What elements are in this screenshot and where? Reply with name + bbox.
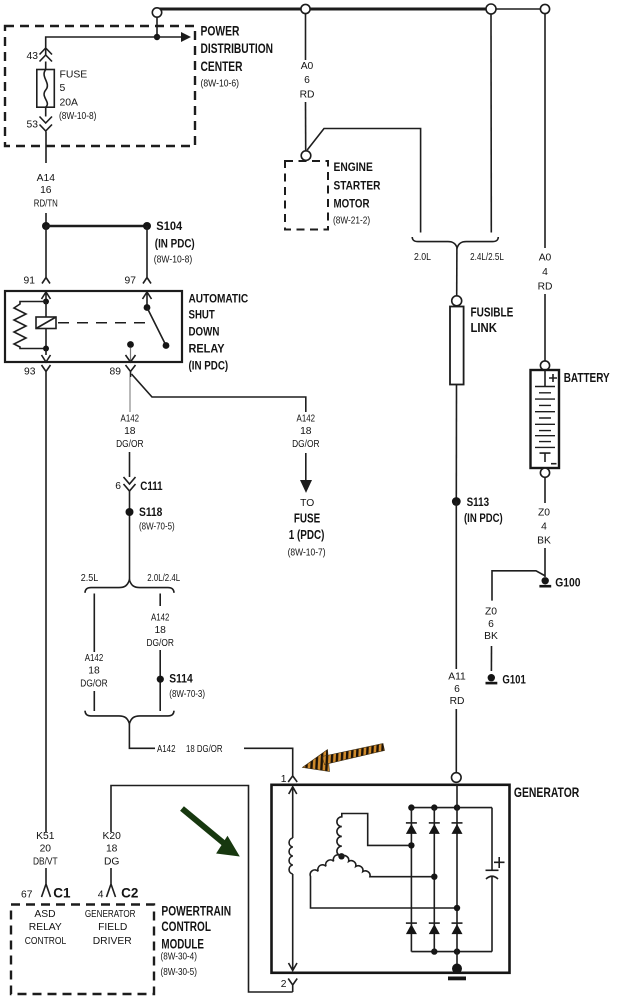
svg-text:97: 97 xyxy=(125,276,137,287)
svg-text:(8W-10-8): (8W-10-8) xyxy=(59,111,96,122)
svg-text:(IN PDC): (IN PDC) xyxy=(155,236,195,250)
svg-text:20: 20 xyxy=(40,844,52,855)
svg-text:ENGINE: ENGINE xyxy=(334,160,373,174)
stator phase C winding xyxy=(342,856,435,877)
svg-text:6: 6 xyxy=(115,481,121,492)
battery plus terminal xyxy=(549,374,557,382)
svg-text:STARTER: STARTER xyxy=(334,179,381,193)
svg-text:(8W-21-2): (8W-21-2) xyxy=(333,215,370,226)
svg-text:5: 5 xyxy=(60,83,66,94)
fuse F5 element xyxy=(44,62,47,108)
pin C1 connector xyxy=(42,872,51,898)
wire 2.5L branch upper xyxy=(93,594,95,653)
svg-text:18: 18 xyxy=(300,426,312,437)
wire fusible link right leg xyxy=(490,14,492,233)
relay switch output contact xyxy=(127,341,134,348)
wire 2.0L branch lower xyxy=(159,650,161,711)
svg-text:2.4L/2.5L: 2.4L/2.5L xyxy=(470,252,504,263)
rectifier top bus xyxy=(411,807,492,809)
svg-text:DG/OR: DG/OR xyxy=(147,638,174,649)
svg-text:LINK: LINK xyxy=(471,320,498,335)
wire from top-left circle down to junction xyxy=(156,17,158,37)
annotation green arrow xyxy=(182,809,240,857)
svg-text:A142: A142 xyxy=(151,613,170,624)
node phase C tap xyxy=(431,874,437,880)
svg-text:2: 2 xyxy=(281,979,287,990)
svg-text:K20: K20 xyxy=(103,831,122,842)
svg-text:18: 18 xyxy=(88,666,100,677)
svg-text:4: 4 xyxy=(542,267,548,278)
capacitor return wire xyxy=(491,877,493,952)
wire K20 lower xyxy=(110,868,112,872)
svg-text:S118: S118 xyxy=(139,505,162,519)
svg-text:1: 1 xyxy=(281,774,287,785)
svg-text:S113: S113 xyxy=(467,495,490,509)
svg-text:A142: A142 xyxy=(121,413,140,424)
wire A0 6 RD upper xyxy=(305,14,307,60)
relay actuation dashed link xyxy=(58,322,146,324)
wire branch to G101 xyxy=(492,571,545,601)
wire battery ground lower xyxy=(544,548,546,577)
node relay coil bottom junction xyxy=(43,346,49,352)
svg-text:DB/VT: DB/VT xyxy=(33,857,58,868)
generator box xyxy=(272,785,510,973)
pin 91 connector xyxy=(42,278,50,284)
fusible link body xyxy=(450,307,464,385)
wire K20 from pin 2 to PCM C2 xyxy=(111,786,293,993)
node connector circle battery feed xyxy=(540,4,549,13)
svg-text:BK: BK xyxy=(484,631,498,642)
svg-text:G100: G100 xyxy=(555,575,580,589)
svg-text:6: 6 xyxy=(488,619,494,630)
wire 2.5L branch lower xyxy=(93,691,95,711)
pin 91 male arrow inside relay xyxy=(42,292,51,302)
svg-text:(8W-70-5): (8W-70-5) xyxy=(139,521,175,532)
generator internal ground xyxy=(452,964,462,974)
svg-text:CENTER: CENTER xyxy=(201,58,243,74)
svg-text:RD: RD xyxy=(450,696,465,707)
node generator B+ circle xyxy=(452,773,462,783)
capacitor C plates xyxy=(486,869,499,871)
svg-text:GENERATOR: GENERATOR xyxy=(85,909,136,920)
diode D2 top xyxy=(429,822,440,824)
rectifier bottom bus xyxy=(411,951,492,953)
resistor inside relay xyxy=(14,302,46,349)
node relay coil top junction xyxy=(43,299,49,305)
svg-text:16: 16 xyxy=(40,185,52,196)
pin 97 connector xyxy=(143,278,151,284)
wire top bus thin segment xyxy=(491,8,545,10)
svg-text:6: 6 xyxy=(304,75,310,86)
diode D1 top xyxy=(406,822,417,824)
svg-text:G101: G101 xyxy=(502,673,525,687)
svg-text:2.0L/2.4L: 2.0L/2.4L xyxy=(147,573,180,584)
wire brace to fusible link xyxy=(456,248,458,296)
svg-text:FIELD: FIELD xyxy=(98,922,127,933)
splice S104 xyxy=(42,222,50,230)
svg-text:C111: C111 xyxy=(140,479,162,493)
svg-text:POWER: POWER xyxy=(201,23,240,39)
svg-text:FUSE: FUSE xyxy=(60,69,88,80)
svg-text:(8W-30-5): (8W-30-5) xyxy=(161,967,197,978)
pin 43 connector chevrons xyxy=(40,48,53,62)
wire battery feed lower xyxy=(544,294,546,361)
splice S118 xyxy=(126,508,134,516)
wire into generator pin 1 xyxy=(244,748,293,775)
svg-text:A142: A142 xyxy=(297,413,316,424)
pin 1 connector xyxy=(288,776,297,782)
svg-text:S104: S104 xyxy=(156,219,182,233)
svg-text:(8W-30-4): (8W-30-4) xyxy=(161,952,197,963)
svg-text:6: 6 xyxy=(454,684,460,695)
svg-text:1 (PDC): 1 (PDC) xyxy=(289,527,325,542)
battery plates xyxy=(535,387,555,448)
capacitor plus label xyxy=(494,857,505,868)
diode D2 bottom xyxy=(429,922,440,924)
svg-text:2.0L: 2.0L xyxy=(414,252,431,263)
generator field winding xyxy=(289,787,297,838)
svg-text:ASD: ASD xyxy=(34,909,55,920)
pin 53 connector chevrons xyxy=(40,117,53,132)
wire arrow feed into Power Distribution Center xyxy=(46,37,183,55)
wire S113 to generator lower xyxy=(455,709,457,773)
svg-text:(8W-10-6): (8W-10-6) xyxy=(201,79,240,90)
svg-text:A0: A0 xyxy=(301,61,314,72)
svg-text:MOTOR: MOTOR xyxy=(334,197,370,211)
node phase B tap xyxy=(454,905,460,911)
svg-text:DG/OR: DG/OR xyxy=(116,439,143,450)
annotation striped arrow xyxy=(303,744,385,772)
svg-text:C1: C1 xyxy=(53,885,71,900)
node connector circle top-left xyxy=(152,8,161,17)
svg-text:18: 18 xyxy=(124,426,136,437)
pin C2 connector xyxy=(107,872,116,898)
capacitor branch wire xyxy=(491,808,493,871)
node connector circle fusible-link feed xyxy=(486,4,496,14)
wire to G101 lower xyxy=(490,646,492,671)
svg-text:43: 43 xyxy=(27,51,39,62)
pin 93 connector pair xyxy=(42,349,51,378)
node battery negative circle xyxy=(540,468,549,477)
svg-text:RD: RD xyxy=(538,282,553,293)
svg-text:18: 18 xyxy=(154,625,166,636)
fuse F5 body xyxy=(37,70,55,108)
splice S113 xyxy=(452,497,461,506)
svg-text:CONTROL: CONTROL xyxy=(25,936,67,947)
wire top bus thick segment xyxy=(156,8,491,11)
svg-text:(IN PDC): (IN PDC) xyxy=(189,359,229,373)
diode D1 bottom xyxy=(406,922,417,924)
stator phase A winding xyxy=(337,814,412,857)
svg-text:(8W-10-7): (8W-10-7) xyxy=(288,548,326,559)
wire S104 to pin 97 xyxy=(146,226,148,277)
svg-text:A14: A14 xyxy=(37,173,56,184)
automatic shut down relay box xyxy=(5,291,182,362)
pin 2 connector xyxy=(288,979,297,993)
rectifier column 3 main line xyxy=(456,785,458,973)
wire A14 lower segment xyxy=(45,213,47,226)
wire battery ground upper xyxy=(544,477,546,503)
svg-text:TO: TO xyxy=(300,498,314,509)
node connector circle A0-6-RD xyxy=(301,4,310,13)
relay switch arm xyxy=(147,308,166,346)
svg-text:POWERTRAIN: POWERTRAIN xyxy=(161,904,231,919)
svg-text:18: 18 xyxy=(106,844,118,855)
svg-text:67: 67 xyxy=(21,889,33,900)
power distribution center dashed box xyxy=(5,26,195,146)
wire S104 to pin 91 xyxy=(45,226,47,277)
svg-text:RELAY: RELAY xyxy=(189,342,226,356)
engine split brace upper xyxy=(85,580,174,593)
svg-text:DISTRIBUTION: DISTRIBUTION xyxy=(201,40,274,56)
node junction dot above PDC arrow xyxy=(154,34,160,40)
engine starter motor dashed box xyxy=(285,161,328,230)
svg-text:89: 89 xyxy=(110,367,122,378)
stator phase B winding xyxy=(310,855,457,908)
svg-text:RD: RD xyxy=(300,89,315,100)
svg-text:Z0: Z0 xyxy=(538,508,550,519)
svg-text:4: 4 xyxy=(541,522,547,533)
wire fusible link to S113 xyxy=(455,385,457,502)
svg-text:MODULE: MODULE xyxy=(161,937,204,952)
wire branch to fusible link brace xyxy=(307,129,420,233)
engine split brace lower xyxy=(85,711,174,724)
relay coil element xyxy=(45,302,47,318)
wire C111 feed xyxy=(129,452,131,477)
svg-text:S114: S114 xyxy=(169,672,192,686)
svg-text:RELAY: RELAY xyxy=(29,922,62,933)
svg-text:CONTROL: CONTROL xyxy=(161,919,211,934)
rectifier column 2 xyxy=(433,808,435,952)
ground G101 xyxy=(488,674,495,681)
powertrain control module dashed box xyxy=(11,905,154,995)
svg-text:DG/OR: DG/OR xyxy=(292,439,319,450)
wire brace to generator run xyxy=(129,724,155,749)
svg-text:A0: A0 xyxy=(539,253,552,264)
svg-text:RD/TN: RD/TN xyxy=(34,198,58,209)
svg-text:18 DG/OR: 18 DG/OR xyxy=(186,744,223,755)
svg-text:53: 53 xyxy=(27,120,39,131)
svg-text:SHUT: SHUT xyxy=(189,308,216,322)
svg-text:91: 91 xyxy=(24,276,36,287)
diode D3 bottom xyxy=(452,922,463,924)
svg-text:DG/OR: DG/OR xyxy=(80,679,107,690)
svg-text:4: 4 xyxy=(98,889,104,900)
connector C111 chevrons xyxy=(124,477,136,491)
svg-text:DOWN: DOWN xyxy=(189,325,220,339)
svg-text:C2: C2 xyxy=(121,885,138,900)
battery minus terminal xyxy=(540,453,551,462)
svg-text:A142: A142 xyxy=(157,744,176,755)
pin 89 connector pair xyxy=(126,355,136,377)
svg-text:DG: DG xyxy=(104,857,119,868)
svg-text:(8W-10-8): (8W-10-8) xyxy=(154,254,192,265)
node battery positive circle xyxy=(540,361,549,370)
svg-text:2.5L: 2.5L xyxy=(81,573,99,584)
wire pin 89 branch to fuse 1 xyxy=(132,374,306,412)
svg-text:GENERATOR: GENERATOR xyxy=(514,784,579,800)
ground G100 xyxy=(542,577,549,584)
node fusible link circle xyxy=(452,296,462,306)
diode D3 top xyxy=(452,822,463,824)
wire S113 to generator upper xyxy=(455,502,457,670)
wire 2.0L/2.4L branch upper xyxy=(159,594,161,607)
fusible link brace xyxy=(412,237,498,248)
node starter feed circle xyxy=(301,151,311,161)
stator Y junction node xyxy=(338,853,344,859)
svg-text:K51: K51 xyxy=(36,831,55,842)
svg-text:A11: A11 xyxy=(448,671,466,682)
wire A0 6 RD lower xyxy=(305,102,307,151)
svg-text:FUSE: FUSE xyxy=(294,511,321,526)
svg-text:BK: BK xyxy=(537,536,551,547)
svg-text:AUTOMATIC: AUTOMATIC xyxy=(189,291,249,305)
svg-text:93: 93 xyxy=(24,367,36,378)
wire pin 89 down branch xyxy=(129,377,131,412)
wire battery feed upper xyxy=(544,14,546,248)
rectifier column 1 xyxy=(410,808,412,952)
wire to fuse 1 arrow xyxy=(305,453,307,481)
wire K51 from relay pin 93 xyxy=(45,377,47,832)
wire C111 to S118 xyxy=(129,491,131,580)
svg-text:A142: A142 xyxy=(85,653,104,664)
wire K51 lower xyxy=(45,868,47,872)
svg-text:(IN PDC): (IN PDC) xyxy=(464,511,503,525)
battery body xyxy=(531,370,560,468)
svg-text:Z0: Z0 xyxy=(485,607,497,618)
svg-text:(8W-70-3): (8W-70-3) xyxy=(169,689,205,700)
wire A14 upper segment xyxy=(45,107,47,163)
splice S114 xyxy=(157,676,164,683)
svg-text:BATTERY: BATTERY xyxy=(564,370,610,385)
svg-text:DRIVER: DRIVER xyxy=(93,936,132,947)
svg-text:20A: 20A xyxy=(60,97,79,108)
svg-text:FUSIBLE: FUSIBLE xyxy=(471,305,514,320)
node phase A tap xyxy=(408,842,414,848)
relay switch common from pin 97 xyxy=(143,292,152,308)
